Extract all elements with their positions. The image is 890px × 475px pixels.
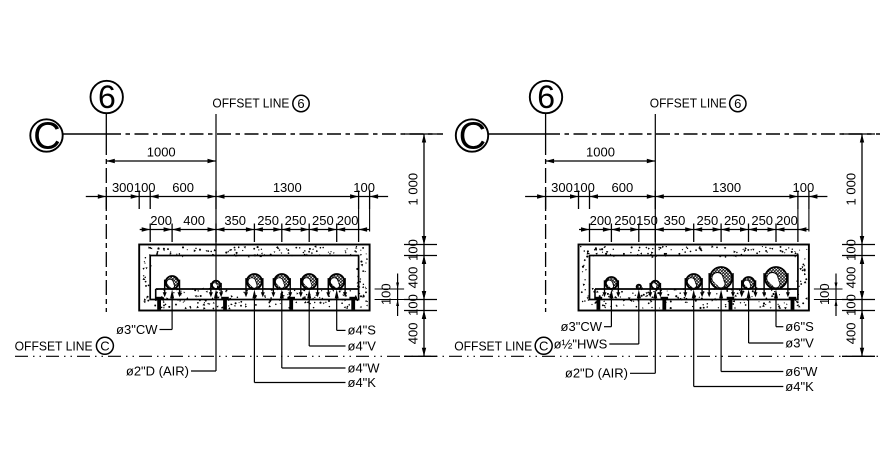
svg-text:6: 6 xyxy=(734,96,741,111)
dim arrows segment 250 xyxy=(611,227,620,231)
dim tick y=310 xyxy=(842,310,875,312)
pipe at x=216 xyxy=(212,281,220,289)
dim tick x=370 xyxy=(369,191,371,210)
svg-text:ø6"W: ø6"W xyxy=(785,364,818,379)
svg-text:100: 100 xyxy=(379,283,394,305)
pipe clamp xyxy=(299,278,320,297)
anchor bolt x=792 xyxy=(789,297,797,300)
leader line from pipe x=337 xyxy=(335,289,339,298)
leader line from pipe x=749 xyxy=(747,289,751,298)
svg-text:350: 350 xyxy=(664,213,686,228)
label OFFSET LINE C xyxy=(15,337,114,354)
dim arrows segment 400 xyxy=(422,256,426,265)
dim tick x=694 xyxy=(693,224,695,243)
svg-text:250: 250 xyxy=(285,213,307,228)
dim tick x=337 xyxy=(336,224,338,243)
dim arrows segment 1300 xyxy=(655,194,664,198)
leader line from pipe x=639 xyxy=(637,289,641,298)
svg-text:ø4"K: ø4"K xyxy=(348,375,377,390)
dim arrows segment 200 xyxy=(581,227,590,231)
dim tick x=359 xyxy=(358,224,360,243)
svg-text:250: 250 xyxy=(697,213,719,228)
svg-text:100: 100 xyxy=(406,239,421,261)
offset line 6 (vertical) xyxy=(215,114,217,283)
pipe clamp xyxy=(762,273,790,297)
anchor bolt x=598 xyxy=(595,297,603,300)
rail step xyxy=(594,289,596,300)
pipe at x=721 xyxy=(710,267,732,289)
pipe clamp xyxy=(683,278,704,297)
label OFFSET LINE C xyxy=(454,337,552,354)
dim arrows segment 300 xyxy=(537,194,546,198)
svg-text:100: 100 xyxy=(406,294,421,316)
concrete stipple texture xyxy=(142,245,368,309)
svg-text:300: 300 xyxy=(551,180,573,195)
dim tick x=776 xyxy=(775,224,777,243)
svg-text:ø4"V: ø4"V xyxy=(348,338,377,353)
svg-text:ø4"S: ø4"S xyxy=(348,323,377,338)
svg-text:100: 100 xyxy=(134,180,156,195)
dim tick x=655 xyxy=(654,191,656,210)
dimension line y=196.5 xyxy=(525,196,827,198)
dimension 1000 xyxy=(106,145,216,164)
pipe clamp xyxy=(707,273,735,297)
dim arrows segment 350 xyxy=(216,227,225,231)
svg-text:ø3"CW: ø3"CW xyxy=(116,322,158,337)
dim arrows segment 100 xyxy=(370,194,379,198)
pipe support rail xyxy=(595,288,798,290)
dim tick y=300 xyxy=(842,299,875,301)
dim arrows segment 600 xyxy=(150,194,159,198)
svg-text:1000: 1000 xyxy=(586,145,615,160)
dim tick x=590 xyxy=(589,191,591,210)
pipe at x=694 xyxy=(686,274,701,289)
leader line from pipe x=216 xyxy=(214,289,218,298)
dim tick x=106 xyxy=(105,191,107,210)
vertical dimension line x=862.0 xyxy=(861,134,863,356)
dim tick x=172 xyxy=(171,224,173,243)
dim arrows segment 300 xyxy=(98,194,107,198)
svg-text:1300: 1300 xyxy=(712,180,741,195)
svg-text:ø½"HWS: ø½"HWS xyxy=(554,336,608,351)
dim tick x=309 xyxy=(308,224,310,243)
leader line from pipe x=282 xyxy=(280,289,284,298)
pipe at x=611 xyxy=(605,277,617,289)
pipe clamp xyxy=(271,278,292,297)
anchor bolt x=664 xyxy=(661,297,669,300)
svg-text:400: 400 xyxy=(406,323,421,345)
leader line from pipe x=655 xyxy=(653,289,657,298)
svg-text:100: 100 xyxy=(353,180,375,195)
leader line from pipe x=694 xyxy=(692,289,696,298)
pipe clamp xyxy=(648,283,662,297)
trench outer wall xyxy=(579,245,809,311)
svg-text:1300: 1300 xyxy=(273,180,302,195)
svg-text:OFFSET LINE: OFFSET LINE xyxy=(15,339,93,354)
dim arrows segment 600 xyxy=(590,194,599,198)
dim arrows segment 100 xyxy=(422,291,426,300)
offset line 6 (vertical) xyxy=(654,114,656,283)
svg-text:OFFSET LINE: OFFSET LINE xyxy=(650,96,727,111)
anchor bolt x=225 xyxy=(221,297,229,300)
dim arrows segment 1 000 xyxy=(422,134,426,143)
grid bubble 6 xyxy=(91,79,123,115)
svg-text:400: 400 xyxy=(406,267,421,289)
svg-text:400: 400 xyxy=(183,213,205,228)
leader line from pipe x=254 xyxy=(252,289,256,298)
anchor bolt x=291 xyxy=(287,297,295,300)
svg-text:600: 600 xyxy=(612,180,634,195)
svg-text:250: 250 xyxy=(751,213,773,228)
dim tick x=590 xyxy=(589,224,591,243)
anchor bolt x=159 xyxy=(155,297,163,300)
dim tick y=356 xyxy=(842,355,875,357)
svg-text:6: 6 xyxy=(537,79,555,115)
svg-text:ø2"D (AIR): ø2"D (AIR) xyxy=(126,363,189,378)
grid bubble C xyxy=(456,116,488,158)
dim tick x=282 xyxy=(281,224,283,243)
pipe clamp xyxy=(326,278,347,297)
leader line from pipe x=172 xyxy=(170,289,174,298)
dim tick x=546 xyxy=(545,191,547,210)
svg-text:100: 100 xyxy=(844,294,859,316)
svg-text:C: C xyxy=(100,339,109,354)
dim tick x=748 xyxy=(748,224,750,243)
pipe support rail xyxy=(156,288,359,290)
svg-text:C: C xyxy=(33,116,60,158)
dim arrows segment 400 xyxy=(860,256,864,265)
svg-text:6: 6 xyxy=(98,79,116,115)
pipe clamp xyxy=(603,280,621,297)
pipe at x=749 xyxy=(743,277,755,289)
trench inner cavity xyxy=(590,256,798,300)
leader line from pipe x=776 xyxy=(774,289,778,298)
svg-text:ø4"W: ø4"W xyxy=(348,360,381,375)
svg-text:100: 100 xyxy=(793,180,815,195)
svg-text:600: 600 xyxy=(172,180,194,195)
svg-text:250: 250 xyxy=(257,213,279,228)
small dim 100 (rail height) xyxy=(375,274,405,317)
svg-text:OFFSET LINE: OFFSET LINE xyxy=(212,96,289,111)
dim tick y=134 xyxy=(404,133,437,135)
svg-text:C: C xyxy=(459,116,486,158)
label OFFSET LINE 6 xyxy=(650,95,746,111)
svg-text:400: 400 xyxy=(844,323,859,345)
dim tick x=655 xyxy=(654,224,656,243)
svg-text:100: 100 xyxy=(817,283,832,305)
dim arrows segment 250 xyxy=(749,227,758,231)
label OFFSET LINE 6 xyxy=(212,95,309,111)
dim arrows segment 100 xyxy=(860,236,864,245)
offset line C (dash-dot horizontal) xyxy=(15,355,881,357)
svg-text:1 000: 1 000 xyxy=(844,173,859,206)
pipe clamp xyxy=(163,280,182,298)
dim arrows segment 250 xyxy=(694,227,703,231)
dim arrows segment 100 xyxy=(860,291,864,300)
grid bubble C xyxy=(30,116,62,158)
pipe at x=776 xyxy=(765,267,787,289)
pipe clamp xyxy=(244,278,265,297)
leader line from pipe x=611 xyxy=(609,289,613,298)
extension lines to trench xyxy=(358,209,360,224)
pipe at x=639 xyxy=(637,285,641,289)
svg-text:OFFSET LINE: OFFSET LINE xyxy=(454,339,532,354)
svg-text:250: 250 xyxy=(312,213,334,228)
grid bubble 6 xyxy=(530,79,562,115)
pipe at x=282 xyxy=(274,274,289,289)
svg-text:1 000: 1 000 xyxy=(406,173,421,206)
svg-text:200: 200 xyxy=(150,213,172,228)
dimension line y=229.5 xyxy=(579,229,808,231)
svg-text:100: 100 xyxy=(573,180,595,195)
small dim 100 (rail height) xyxy=(814,274,843,317)
svg-text:400: 400 xyxy=(844,267,859,289)
leader line from pipe x=309 xyxy=(307,289,311,298)
svg-text:ø6"S: ø6"S xyxy=(785,319,814,334)
dim arrows segment 400 xyxy=(422,311,426,320)
dim tick x=139 xyxy=(138,191,140,210)
dim tick x=721 xyxy=(720,224,722,243)
dim tick x=359 xyxy=(358,191,360,210)
dim tick y=244 xyxy=(842,244,875,246)
dim arrows segment 200 xyxy=(776,227,785,231)
dimension line y=196.5 xyxy=(86,196,388,198)
dim arrows segment 250 xyxy=(721,227,730,231)
svg-text:ø3"CW: ø3"CW xyxy=(561,319,603,334)
dim arrows segment 250 xyxy=(282,227,291,231)
svg-text:250: 250 xyxy=(614,213,636,228)
dim arrows segment 250 xyxy=(254,227,263,231)
dim arrows segment 350 xyxy=(655,227,664,231)
pipe at x=337 xyxy=(329,274,344,289)
dim arrows segment 1300 xyxy=(216,194,225,198)
leader line from pipe x=721 xyxy=(719,289,723,298)
svg-text:300: 300 xyxy=(112,180,134,195)
dim tick x=639 xyxy=(638,224,640,243)
dim tick y=310 xyxy=(404,310,437,312)
svg-text:350: 350 xyxy=(224,213,246,228)
svg-text:250: 250 xyxy=(724,213,746,228)
dim arrows segment 100 xyxy=(422,236,426,245)
svg-text:150: 150 xyxy=(636,213,658,228)
svg-text:100: 100 xyxy=(844,239,859,261)
dim tick x=798 xyxy=(797,224,799,243)
dimension line y=229.5 xyxy=(140,229,369,231)
extension lines to trench xyxy=(797,209,799,224)
svg-text:200: 200 xyxy=(337,213,359,228)
dim arrows segment 1 000 xyxy=(860,134,864,143)
dim tick x=150 xyxy=(149,224,151,243)
concrete stipple texture xyxy=(580,245,808,309)
centerline C (dash-dot) xyxy=(63,133,107,135)
centerline C (dash-dot) xyxy=(488,133,546,135)
pipe at x=309 xyxy=(302,274,317,289)
svg-text:ø3"V: ø3"V xyxy=(785,335,814,350)
svg-text:6: 6 xyxy=(297,96,304,111)
pipe at x=172 xyxy=(166,276,179,289)
trench inner cavity xyxy=(150,256,358,300)
dim tick x=254 xyxy=(253,224,255,243)
grid line 6 (vertical) xyxy=(545,113,547,140)
dim tick x=216 xyxy=(215,191,217,210)
dim arrows segment 200 xyxy=(337,227,346,231)
svg-text:200: 200 xyxy=(776,213,798,228)
dim tick y=134 xyxy=(842,133,875,135)
pipe clamp xyxy=(209,283,223,297)
dim arrows segment 200 xyxy=(142,227,151,231)
dim arrows segment 400 xyxy=(860,311,864,320)
dim arrows segment 250 xyxy=(309,227,318,231)
dim tick x=578 xyxy=(578,191,580,210)
svg-text:ø2"D (AIR): ø2"D (AIR) xyxy=(565,366,628,381)
vertical dimension line x=424.0 xyxy=(423,134,425,356)
svg-text:1000: 1000 xyxy=(147,145,176,160)
dim tick x=150 xyxy=(149,191,151,210)
dim arrows segment 400 xyxy=(172,227,181,231)
dim tick x=809 xyxy=(808,191,810,210)
pipe at x=655 xyxy=(651,281,659,289)
dim tick y=300 xyxy=(404,299,437,301)
trench outer wall xyxy=(139,245,369,311)
dim tick y=356 xyxy=(404,355,437,357)
dim tick x=611 xyxy=(610,224,612,243)
anchor bolt x=353 xyxy=(349,297,357,300)
svg-text:C: C xyxy=(539,339,548,354)
svg-text:200: 200 xyxy=(590,213,612,228)
svg-text:ø4"K: ø4"K xyxy=(785,379,814,394)
grid line 6 (vertical) xyxy=(105,113,107,140)
dim tick x=798 xyxy=(797,191,799,210)
rail step xyxy=(155,289,157,300)
pipe at x=254 xyxy=(247,274,262,289)
pipe clamp xyxy=(740,280,758,297)
dim tick y=256 xyxy=(404,255,437,257)
anchor bolt x=730 xyxy=(727,297,735,300)
dim tick y=244 xyxy=(404,244,437,246)
dim tick y=256 xyxy=(842,255,875,257)
dim tick x=216 xyxy=(215,224,217,243)
dimension 1000 xyxy=(546,145,656,164)
dim arrows segment 100 xyxy=(809,194,818,198)
